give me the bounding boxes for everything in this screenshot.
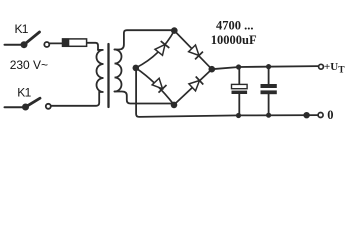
svg-text:K1: K1 xyxy=(15,22,29,36)
svg-text:+U: +U xyxy=(324,61,338,73)
svg-text:4700 ...: 4700 ... xyxy=(216,19,254,33)
svg-text:K1: K1 xyxy=(17,86,31,100)
svg-text:0: 0 xyxy=(327,108,333,122)
svg-text:10000uF: 10000uF xyxy=(211,33,257,47)
svg-text:230 V~: 230 V~ xyxy=(10,58,48,72)
svg-text:T: T xyxy=(338,66,345,76)
